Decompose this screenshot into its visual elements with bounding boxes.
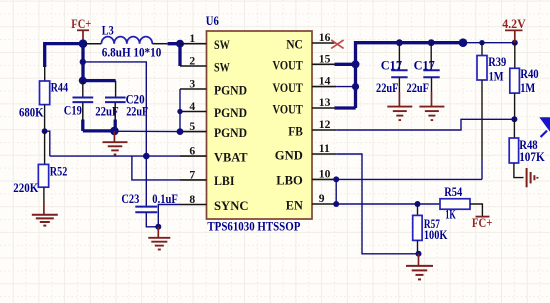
value 1M (R39): [489, 69, 504, 83]
junction C23/SYNC ground: [155, 224, 161, 230]
svg-text:15: 15: [319, 52, 331, 65]
svg-text:L3: L3: [102, 23, 114, 37]
svg-text:C23: C23: [121, 192, 139, 206]
pin name VOUT (pin 13): [273, 102, 304, 116]
svg-text:10: 10: [319, 167, 331, 180]
resistor R44: [40, 67, 50, 132]
inductor L3: [85, 37, 168, 44]
svg-text:11: 11: [319, 142, 330, 155]
ground (C23): [148, 227, 170, 250]
svg-text:680K: 680K: [19, 105, 44, 119]
svg-text:14: 14: [319, 75, 331, 88]
resistor R57: [413, 204, 422, 254]
svg-text:4.2V: 4.2V: [502, 17, 526, 31]
svg-text:12: 12: [319, 118, 331, 131]
pin name PGND (pin 3): [214, 83, 247, 97]
svg-text:PGND: PGND: [214, 106, 247, 120]
value 680K: [19, 105, 44, 119]
svg-text:SYNC: SYNC: [214, 199, 249, 213]
svg-text:R52: R52: [50, 164, 68, 178]
no-connect cross on NC: [331, 40, 343, 48]
pin 8 stub: [180, 204, 207, 206]
label U6: [206, 14, 219, 28]
svg-text:9: 9: [319, 192, 325, 205]
svg-text:1M: 1M: [520, 81, 535, 95]
svg-text:4: 4: [189, 100, 195, 113]
wire GND return: [336, 154, 418, 254]
svg-text:6: 6: [189, 145, 195, 158]
svg-text:VOUT: VOUT: [273, 81, 304, 95]
wire PGND to caps: [114, 130, 180, 132]
junction VOUT rail end: [459, 38, 468, 47]
junction R57/ground: [416, 251, 422, 257]
junction FC+ stem: [79, 39, 88, 48]
pin name FB (pin 12): [288, 124, 303, 138]
junction R44/R52: [42, 128, 48, 134]
value 6.8uH 10*10: [102, 46, 162, 60]
pin number 9: [319, 192, 325, 205]
label C20: [126, 92, 145, 106]
pin 2 stub: [180, 65, 207, 67]
wire divider tap: [45, 131, 50, 156]
label C17 (b): [414, 59, 435, 73]
svg-text:2: 2: [189, 54, 195, 67]
svg-text:22uF: 22uF: [126, 105, 148, 119]
pin name PGND (pin 4): [214, 106, 247, 120]
junction C17b rail: [428, 39, 435, 46]
junction C19/C20 top: [79, 77, 87, 85]
pin name SYNC (pin 8): [214, 199, 249, 213]
pin 13 stub: [312, 107, 335, 109]
pin number 5: [189, 120, 195, 133]
op-amp U6 body (TPS61030): [207, 31, 313, 219]
svg-text:22uF: 22uF: [376, 81, 399, 95]
svg-text:1: 1: [189, 32, 195, 45]
resistor R40: [510, 43, 520, 120]
label C19: [64, 104, 82, 118]
capacitor C17a: [391, 43, 407, 106]
capacitor C17b: [423, 43, 439, 106]
svg-text:3: 3: [189, 77, 195, 90]
label TPS61030 HTSSOP: [207, 220, 300, 234]
pin number 4: [189, 100, 195, 113]
ground (C17a): [387, 107, 412, 121]
label R44: [51, 81, 69, 95]
junction C17a rail: [396, 39, 403, 46]
wire VOUT rail: [463, 42, 515, 44]
pin 3 stub: [180, 88, 207, 90]
svg-text:1K: 1K: [445, 208, 456, 222]
label R52: [50, 164, 68, 178]
label L3: [102, 23, 114, 37]
svg-text:GND: GND: [275, 148, 303, 162]
pin number 1: [189, 32, 195, 45]
wire FB: [336, 119, 514, 130]
ground (C17b): [419, 107, 444, 121]
wire FC+ rail (thick): [45, 44, 85, 67]
label R54: [444, 185, 462, 199]
pin 16 stub: [312, 42, 335, 44]
svg-text:PGND: PGND: [214, 126, 247, 140]
junction pin 5: [177, 128, 184, 135]
junction 4.2V: [512, 40, 518, 46]
svg-text:FC+: FC+: [472, 216, 493, 230]
svg-text:PGND: PGND: [214, 83, 247, 97]
svg-text:R54: R54: [444, 185, 462, 199]
svg-text:R44: R44: [51, 81, 69, 95]
ground (R52): [32, 202, 58, 226]
pin 5 stub: [180, 131, 207, 133]
wire VOUT bus (thick): [335, 43, 464, 108]
wire LBO-EN tie: [335, 179, 337, 204]
value 22uF (C19): [95, 105, 119, 119]
pin name SW (pin 1): [214, 38, 230, 52]
label R57: [424, 217, 440, 231]
pin 11 stub: [312, 153, 336, 155]
svg-text:LBO: LBO: [276, 174, 303, 188]
svg-text:16: 16: [319, 31, 331, 44]
sheet connector arrow (clipped): [539, 117, 550, 137]
wire PGND bottom (thick): [83, 129, 115, 132]
value 100K: [424, 228, 448, 242]
pin number 14: [319, 75, 331, 88]
wire L3 to SW pins (thick): [168, 44, 180, 66]
power flag FC+ (battery rail): [71, 17, 91, 44]
value 22uF (C20): [126, 105, 148, 119]
value 1K: [445, 208, 456, 222]
pin number 3: [189, 77, 195, 90]
svg-text:LBI: LBI: [214, 174, 235, 188]
label R40: [520, 67, 539, 81]
value 1M (R40): [520, 81, 535, 95]
value 107K: [519, 150, 545, 164]
ground (R57): [406, 254, 433, 280]
svg-text:SW: SW: [214, 60, 230, 74]
junction VBAT tap: [80, 59, 86, 65]
ground (C19/C20): [103, 131, 128, 155]
svg-text:R40: R40: [520, 67, 539, 81]
label R48: [519, 138, 538, 152]
svg-text:R39: R39: [488, 55, 506, 69]
junction R57 top: [415, 201, 421, 207]
svg-text:1M: 1M: [489, 69, 504, 83]
svg-text:5: 5: [189, 120, 195, 133]
svg-text:8: 8: [189, 193, 195, 206]
label C17 (a): [381, 59, 402, 73]
junction EN: [333, 201, 339, 207]
svg-text:VOUT: VOUT: [273, 59, 304, 73]
value 220K: [13, 181, 38, 195]
junction R39 rail: [479, 40, 484, 45]
svg-text:VOUT: VOUT: [273, 102, 304, 116]
junction PGND/ground: [110, 127, 119, 136]
junction FB/R48: [511, 116, 517, 122]
svg-text:220K: 220K: [13, 181, 38, 195]
pin number 16: [319, 31, 331, 44]
pin 12 stub: [312, 129, 336, 131]
pin number 2: [189, 54, 195, 67]
capacitor C23: [135, 207, 158, 227]
pin name VOUT (pin 14): [273, 81, 304, 95]
power flag FC+ (EN pull-up): [472, 216, 493, 230]
resistor R39: [477, 43, 487, 180]
junction LBO: [333, 176, 339, 182]
junction pin 1: [176, 40, 184, 48]
pin name SW (pin 2): [214, 60, 230, 74]
capacitor C19: [73, 81, 94, 131]
pin name LBO (pin 10): [276, 174, 303, 188]
wire C19 branch (thick): [81, 44, 115, 81]
value 0.1uF: [152, 192, 178, 206]
pin name NC (pin 16): [286, 37, 303, 51]
pin 4 stub: [180, 111, 207, 113]
svg-text:C19: C19: [64, 104, 82, 118]
pin 7 stub: [180, 179, 207, 181]
junction pin 14 bus: [352, 83, 359, 90]
resistor R54: [440, 199, 482, 217]
resistor R48: [509, 119, 523, 177]
svg-text:7: 7: [189, 168, 195, 181]
svg-text:C17: C17: [414, 59, 435, 73]
capacitor C20: [105, 81, 126, 131]
wire VBAT feed: [83, 62, 147, 206]
pin number 10: [319, 167, 331, 180]
junction pin 4: [177, 109, 182, 114]
wire VBAT to pin 6: [50, 155, 180, 157]
wire EN: [336, 203, 440, 205]
svg-text:107K: 107K: [519, 150, 545, 164]
power flag 4.2V: [502, 17, 526, 43]
pin name GND (pin 11): [275, 148, 303, 162]
pin name EN (pin 9): [286, 198, 304, 212]
pin name PGND (pin 5): [214, 126, 247, 140]
svg-text:SW: SW: [214, 38, 230, 52]
svg-text:NC: NC: [286, 37, 303, 51]
pin name VBAT (pin 6): [214, 150, 248, 164]
pin number 12: [319, 118, 331, 131]
wire LBO: [336, 178, 482, 180]
svg-text:100K: 100K: [424, 228, 448, 242]
pin 14 stub: [312, 86, 336, 88]
svg-text:13: 13: [319, 96, 331, 109]
pin number 15: [319, 52, 331, 65]
pin number 11: [319, 142, 330, 155]
value 22uF (C17a): [376, 81, 399, 95]
pin 15 stub: [312, 63, 335, 65]
svg-text:C17: C17: [381, 59, 402, 73]
pin 6 stub: [180, 155, 207, 157]
svg-text:EN: EN: [286, 198, 304, 212]
wire pin 14 to bus: [336, 86, 355, 88]
pin number 6: [189, 145, 195, 158]
value 22uF (C17b): [407, 81, 430, 95]
pin name VOUT (pin 15): [273, 59, 304, 73]
svg-text:U6: U6: [206, 14, 219, 28]
wire PGND tie: [179, 89, 181, 132]
pin 10 stub: [312, 178, 336, 180]
svg-text:0.1uF: 0.1uF: [152, 192, 178, 206]
resistor R52: [38, 131, 48, 202]
svg-text:22uF: 22uF: [407, 81, 430, 95]
svg-text:TPS61030 HTSSOP: TPS61030 HTSSOP: [207, 220, 300, 234]
ground (R48, sideways): [524, 168, 538, 187]
wire LBI branch: [132, 156, 180, 180]
pin 1 stub: [180, 43, 207, 45]
pin name LBI (pin 7): [214, 174, 235, 188]
junction VBAT at pin 6: [143, 153, 150, 160]
svg-text:VBAT: VBAT: [214, 150, 248, 164]
svg-text:FB: FB: [288, 124, 303, 138]
pin number 8: [189, 193, 195, 206]
junction pin 15 bus: [352, 60, 360, 68]
label R39: [488, 55, 506, 69]
wire SYNC to ground: [158, 205, 180, 227]
pin number 13: [319, 96, 331, 109]
pin 9 stub: [312, 203, 336, 205]
pin number 7: [189, 168, 195, 181]
label C23: [121, 192, 139, 206]
svg-text:FC+: FC+: [71, 17, 91, 31]
svg-text:6.8uH 10*10: 6.8uH 10*10: [102, 46, 162, 60]
